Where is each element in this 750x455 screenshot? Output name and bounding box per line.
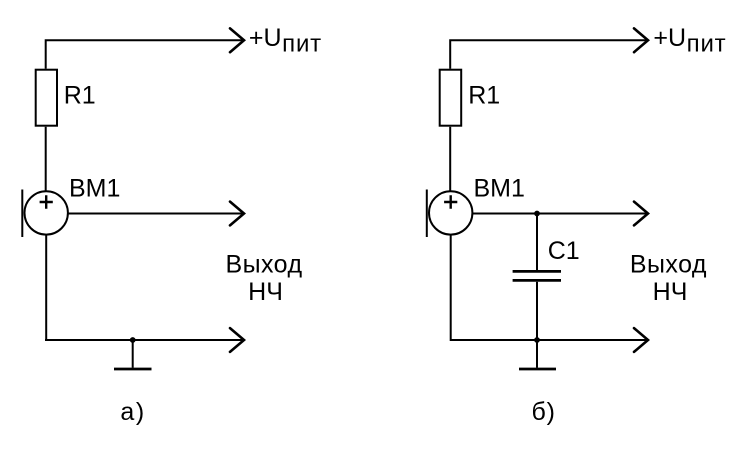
microphone BM1, circuit a bbox=[22, 190, 68, 238]
arrow: ground-side terminal, circuit a bbox=[230, 328, 244, 352]
svg-text:C1: C1 bbox=[548, 237, 580, 265]
ground, circuit b bbox=[519, 340, 556, 369]
junction: ground node, circuit b bbox=[534, 337, 540, 343]
wire: +Uпит rail, circuit b bbox=[450, 40, 647, 68]
capacitor C1, circuit b bbox=[513, 271, 561, 280]
arrow: output terminal, circuit b bbox=[634, 202, 648, 226]
microphone BM1, circuit b bbox=[427, 190, 473, 238]
svg-text:R1: R1 bbox=[468, 81, 500, 109]
arrow: ground-side terminal, circuit b bbox=[634, 328, 648, 352]
svg-text:б): б) bbox=[532, 398, 556, 426]
svg-text:BM1: BM1 bbox=[69, 175, 120, 203]
wire: C1 top lead, circuit b bbox=[536, 214, 538, 271]
wire: output, circuit b bbox=[472, 213, 648, 215]
svg-text:НЧ: НЧ bbox=[653, 278, 688, 306]
wire: output, circuit a bbox=[67, 213, 244, 215]
label Выход НЧ, circuit b bbox=[630, 251, 707, 307]
junction: ground node, circuit a bbox=[130, 337, 136, 343]
svg-text:BM1: BM1 bbox=[474, 175, 525, 203]
wire: R1 to BM1, circuit a bbox=[45, 127, 47, 192]
svg-text:R1: R1 bbox=[64, 81, 96, 109]
resistor R1, circuit a bbox=[36, 70, 57, 126]
wire: C1 bottom lead, circuit b bbox=[536, 282, 538, 340]
wire: ground rail, circuit b bbox=[451, 235, 648, 340]
svg-text:НЧ: НЧ bbox=[248, 278, 283, 306]
arrow: output terminal, circuit a bbox=[230, 202, 244, 226]
ground, circuit a bbox=[114, 340, 152, 369]
junction: output to C1, circuit b bbox=[534, 211, 540, 217]
wire: ground rail, circuit a bbox=[45, 235, 244, 340]
arrow: +Uпит terminal, circuit a bbox=[230, 28, 244, 52]
wire: +Uпит rail, circuit a bbox=[46, 40, 244, 68]
wire: R1 to BM1, circuit b bbox=[449, 127, 451, 192]
resistor R1, circuit b bbox=[440, 70, 462, 126]
svg-text:а): а) bbox=[120, 398, 145, 426]
svg-text:Выход: Выход bbox=[225, 251, 302, 279]
svg-text:Выход: Выход bbox=[630, 251, 707, 279]
label Выход НЧ, circuit a bbox=[225, 251, 302, 307]
arrow: +Uпит terminal, circuit b bbox=[634, 28, 648, 52]
